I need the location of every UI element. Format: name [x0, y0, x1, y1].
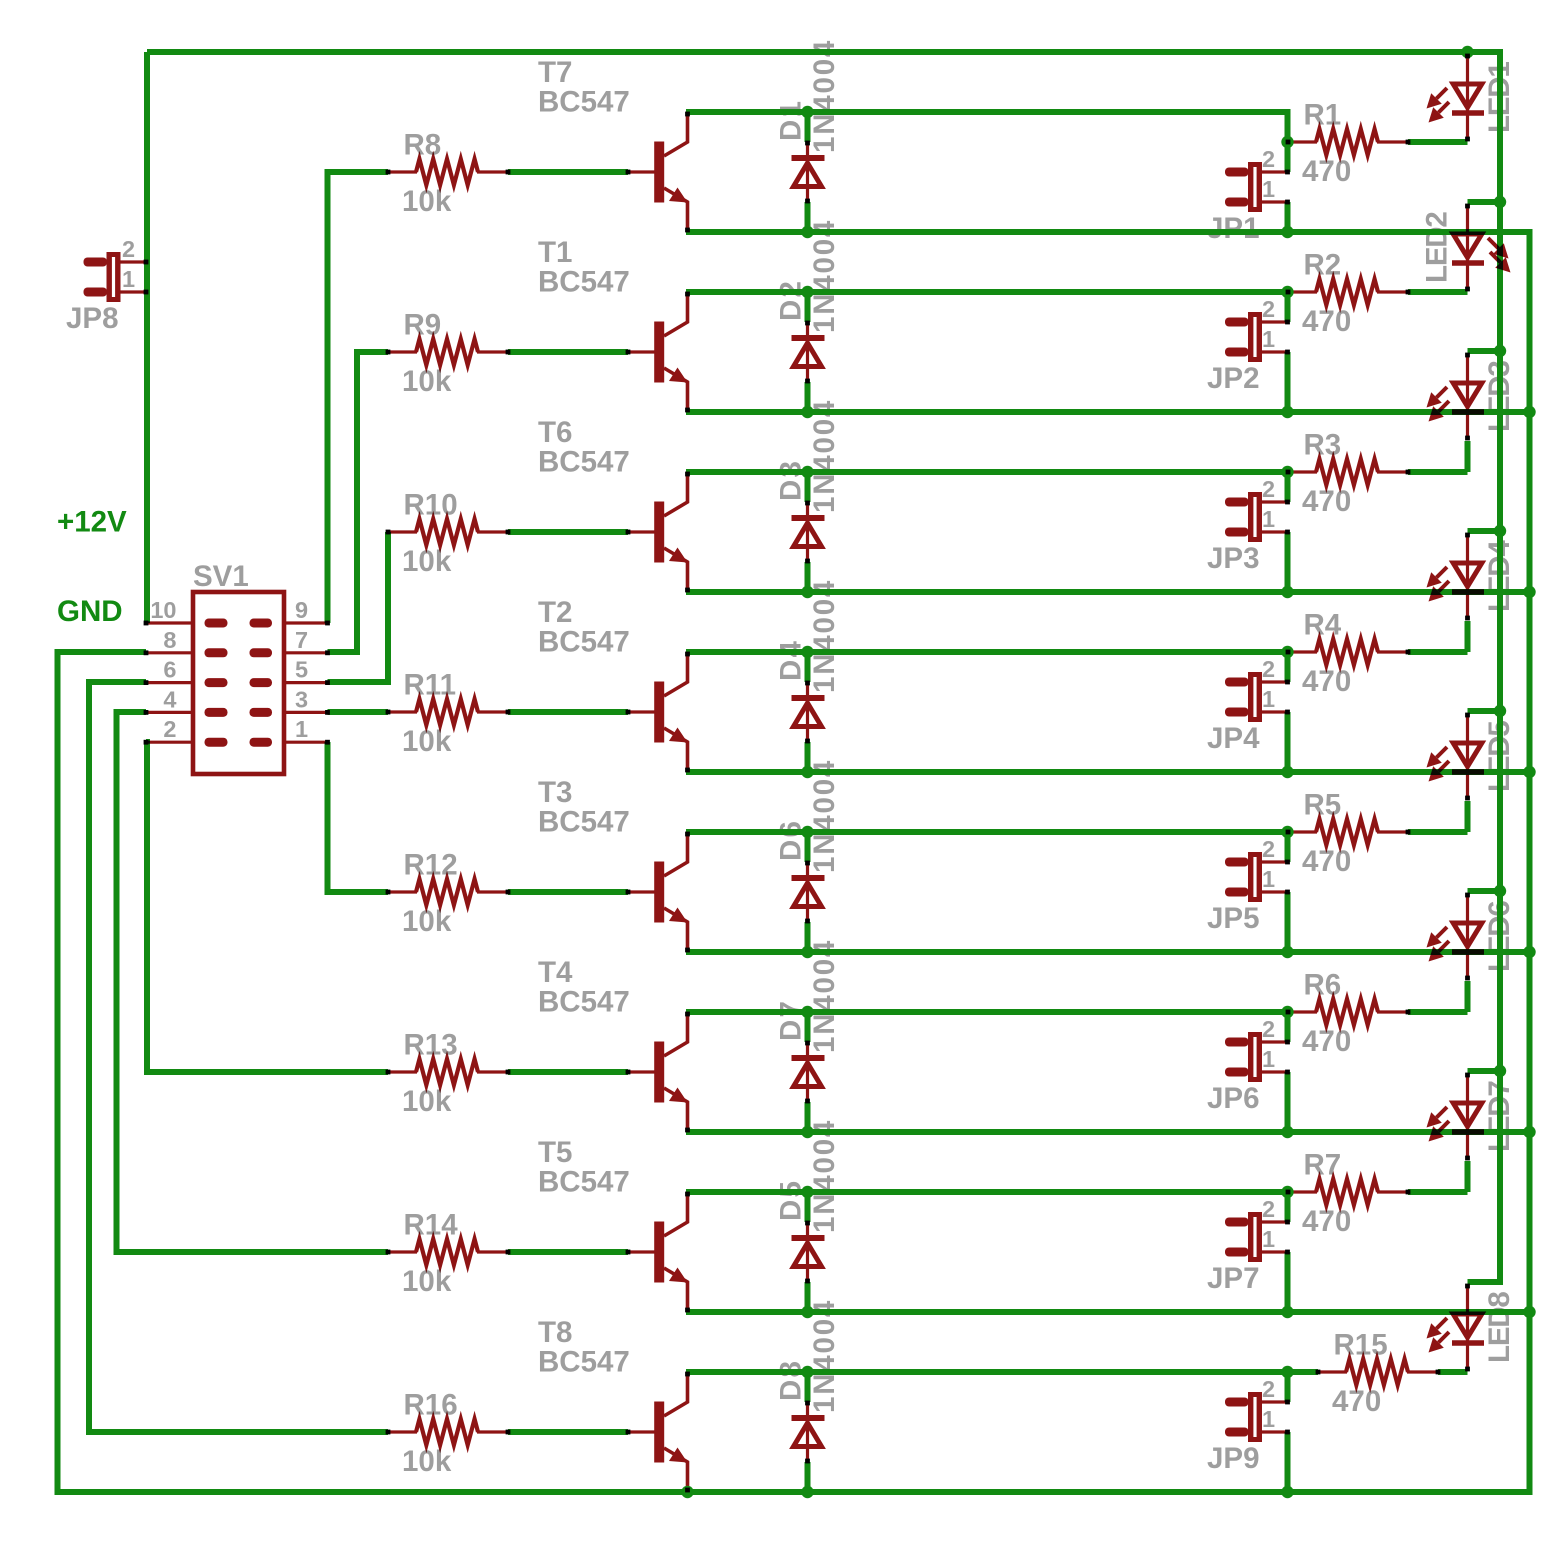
junction diode anode row 2 — [801, 406, 813, 418]
svg-text:T2: T2 — [538, 596, 572, 629]
wire R9 to T1 base — [508, 349, 628, 355]
wire LED3 cathode jog — [1465, 441, 1471, 472]
svg-text:8: 8 — [163, 627, 176, 653]
junction GND rail row 7 — [1523, 1306, 1535, 1318]
svg-text:R1: R1 — [1304, 99, 1342, 132]
pins of D2 — [805, 321, 810, 326]
svg-text:R15: R15 — [1334, 1329, 1388, 1362]
pins of LED1 — [1465, 54, 1470, 59]
junction 470-resistor row 6 — [1281, 1006, 1293, 1018]
jumper JP5 — [1225, 858, 1249, 867]
junction jumper pin1 GND row 2 — [1281, 406, 1293, 418]
svg-text:BC547: BC547 — [538, 986, 630, 1019]
svg-text:JP2: JP2 — [1207, 362, 1260, 395]
svg-text:JP9: JP9 — [1207, 1442, 1260, 1475]
jumper JP2 — [1225, 318, 1249, 327]
wire JP3 pin2 — [1285, 472, 1291, 502]
diode D7 — [806, 1042, 809, 1102]
wire SV1 pin3 to R11 — [328, 709, 389, 715]
wire T5 collector net — [686, 1189, 1288, 1195]
wire JP4 pin2 — [1285, 652, 1291, 682]
junction jumper pin1 GND row 6 — [1281, 1126, 1293, 1138]
wire D8 cathode — [805, 1372, 811, 1402]
junction diode cathode row 2 — [801, 286, 813, 298]
wire JP9 pin2 — [1285, 1372, 1291, 1402]
LED LED3 — [1466, 353, 1469, 439]
svg-text:BC547: BC547 — [538, 266, 630, 299]
pins of R9 — [386, 350, 391, 355]
svg-text:T1: T1 — [538, 236, 572, 269]
wire JP9 pin1 to GND — [1285, 1432, 1291, 1492]
pins of T1 — [626, 350, 631, 355]
svg-text:T6: T6 — [538, 416, 572, 449]
transistor T1 — [628, 350, 655, 353]
wire D5 cathode — [805, 1192, 811, 1222]
svg-text:1: 1 — [1262, 686, 1275, 712]
pins of T4 — [626, 1070, 631, 1075]
junction 470-resistor row 2 — [1281, 286, 1293, 298]
svg-text:R14: R14 — [404, 1209, 459, 1242]
pins of R10 — [386, 530, 391, 535]
resistor R9 10k — [388, 350, 417, 353]
resistor R6 470 — [1288, 1010, 1317, 1013]
wire R10 to T6 base — [508, 529, 628, 535]
junction +12V LED4 stub — [1494, 525, 1506, 537]
svg-text:1N4004: 1N4004 — [808, 579, 841, 693]
svg-text:JP1: JP1 — [1207, 212, 1260, 245]
LED LED6 — [1466, 893, 1469, 979]
diode D3 — [806, 502, 809, 562]
pins of T5 — [626, 1250, 631, 1255]
svg-text:3: 3 — [295, 686, 308, 712]
svg-text:BC547: BC547 — [538, 446, 630, 479]
pins of R14 — [386, 1250, 391, 1255]
LED LED1 — [1466, 54, 1469, 140]
pins of LED2 — [1465, 204, 1470, 209]
svg-text:JP8: JP8 — [66, 302, 119, 335]
svg-text:2: 2 — [1262, 836, 1275, 862]
svg-text:BC547: BC547 — [538, 1166, 630, 1199]
diode D4 — [806, 682, 809, 742]
wire SV1 pin5 to R10 — [328, 532, 389, 682]
transistor T6 — [628, 530, 655, 533]
junction GND rail row 3 — [1523, 586, 1535, 598]
wire R15 to LED8 — [1438, 1369, 1468, 1375]
svg-text:1: 1 — [1262, 1226, 1275, 1252]
junction +12V LED3 stub — [1494, 345, 1506, 357]
wire R1 to LED1 — [1408, 139, 1468, 145]
svg-text:5: 5 — [295, 657, 308, 683]
pins of R2 — [1286, 290, 1291, 295]
pins of T6 — [626, 530, 631, 535]
LED LED4 — [1466, 533, 1469, 619]
wire D3 anode — [805, 562, 811, 592]
svg-text:D5: D5 — [775, 1179, 808, 1221]
resistor R7 470 — [1288, 1190, 1317, 1193]
wire LED7 anode stub — [1468, 1068, 1501, 1074]
wire D6 anode — [805, 922, 811, 952]
svg-text:2: 2 — [122, 236, 135, 262]
svg-text:1: 1 — [1262, 1406, 1275, 1432]
wire LED7 cathode jog — [1465, 1161, 1471, 1192]
junction diode anode row 7 — [801, 1306, 813, 1318]
wire R5 to LED5 — [1408, 829, 1468, 835]
wire R4 to LED4 — [1408, 649, 1468, 655]
svg-text:JP3: JP3 — [1207, 542, 1260, 575]
svg-text:R3: R3 — [1304, 429, 1342, 462]
wire JP5 pin1 to GND — [1285, 892, 1291, 952]
LED LED2 — [1466, 204, 1469, 290]
pins of LED3 — [1465, 353, 1470, 358]
wire LED6 anode stub — [1468, 888, 1501, 894]
junction +12V LED7 stub — [1494, 1065, 1506, 1077]
wire R14 to T5 base — [508, 1249, 628, 1255]
pins of JP4 — [1285, 680, 1290, 685]
svg-text:1N4004: 1N4004 — [808, 939, 841, 1053]
wire +12V left vertical — [144, 52, 150, 623]
svg-text:R9: R9 — [404, 309, 442, 342]
svg-text:D4: D4 — [775, 639, 808, 681]
junction jumper pin1 GND row 8 — [1281, 1486, 1293, 1498]
wire JP4 pin1 to GND — [1285, 712, 1291, 772]
wire R2 to LED2 — [1408, 289, 1468, 295]
junction 470-resistor row 5 — [1281, 826, 1293, 838]
svg-text:BC547: BC547 — [538, 806, 630, 839]
svg-text:T3: T3 — [538, 776, 572, 809]
wire D7 cathode — [805, 1012, 811, 1042]
svg-text:R7: R7 — [1304, 1149, 1342, 1182]
junction diode cathode row 5 — [801, 826, 813, 838]
svg-text:6: 6 — [163, 657, 176, 683]
wire T2 collector net — [686, 649, 1288, 655]
svg-text:R4: R4 — [1304, 609, 1342, 642]
junction +12V LED6 stub — [1494, 885, 1506, 897]
transistor T7 — [628, 170, 655, 173]
wire JP2 pin1 to GND — [1285, 352, 1291, 412]
resistor R10 10k — [388, 530, 417, 533]
wire T1 collector net — [686, 289, 1288, 295]
resistor R12 10k — [388, 890, 417, 893]
svg-text:R12: R12 — [404, 849, 458, 882]
wire D2 cathode — [805, 292, 811, 322]
wire T5 emitter to GND — [686, 1309, 1530, 1315]
jumper JP3 — [1225, 498, 1249, 507]
wire D6 cathode — [805, 832, 811, 862]
wire T3 emitter to GND — [686, 949, 1530, 955]
svg-text:BC547: BC547 — [538, 1346, 630, 1379]
wire D8 anode — [805, 1462, 811, 1492]
svg-text:10: 10 — [150, 597, 176, 623]
pins of T8 — [626, 1430, 631, 1435]
pins of LED6 — [1465, 893, 1470, 898]
wire SV1 pin4 to R14 — [117, 712, 389, 1252]
resistor R2 470 — [1288, 290, 1317, 293]
svg-text:BC547: BC547 — [538, 86, 630, 119]
wire T4 emitter to GND — [686, 1129, 1530, 1135]
wire T7 collector net — [686, 112, 1288, 142]
junction GND rail row 4 — [1523, 766, 1535, 778]
jumper JP7 — [1225, 1218, 1249, 1227]
junction diode cathode row 1 — [801, 106, 813, 118]
jumper JP8 — [84, 258, 108, 267]
junction diode cathode row 3 — [801, 466, 813, 478]
wire JP7 pin1 to GND — [1285, 1252, 1291, 1312]
wire R15 left link — [1288, 1369, 1319, 1375]
wire D7 anode — [805, 1102, 811, 1132]
wire GND right rail and bottom rail — [58, 232, 1530, 1492]
LED LED8 — [1466, 1284, 1469, 1370]
diode D5 — [806, 1222, 809, 1282]
pins of D3 — [805, 501, 810, 506]
junction +12V LED5 stub — [1494, 705, 1506, 717]
resistor R3 470 — [1288, 470, 1317, 473]
junction diode cathode row 6 — [801, 1006, 813, 1018]
pins of R11 — [386, 710, 391, 715]
svg-text:D7: D7 — [775, 999, 808, 1041]
junction diode anode row 3 — [801, 586, 813, 598]
wire T3 collector net — [686, 829, 1288, 835]
wire T2 emitter to GND — [686, 769, 1530, 775]
diode D8 — [806, 1402, 809, 1462]
junction diode anode row 6 — [801, 1126, 813, 1138]
svg-text:D2: D2 — [775, 279, 808, 321]
pins of R3 — [1286, 470, 1291, 475]
wire JP1 pin2 — [1285, 142, 1291, 172]
svg-text:R10: R10 — [404, 489, 458, 522]
wire LED3 anode stub — [1468, 348, 1501, 354]
svg-text:JP7: JP7 — [1207, 1262, 1260, 1295]
wire +12V top rail and LED supply rail — [147, 52, 1500, 1282]
pins of R7 — [1286, 1190, 1291, 1195]
svg-text:R13: R13 — [404, 1029, 458, 1062]
wire T6 emitter to GND — [686, 589, 1530, 595]
junction +12V LED1 — [1461, 46, 1473, 58]
wire R11 to T2 base — [508, 709, 628, 715]
wire D4 anode — [805, 742, 811, 772]
wire T6 collector net — [686, 469, 1288, 475]
junction diode cathode row 8 — [801, 1366, 813, 1378]
pins of R13 — [386, 1070, 391, 1075]
svg-text:D6: D6 — [775, 819, 808, 861]
junction 470-resistor row 4 — [1281, 646, 1293, 658]
pins of T3 — [626, 890, 631, 895]
svg-text:7: 7 — [295, 627, 308, 653]
svg-text:GND: GND — [57, 595, 123, 628]
pins of JP7 — [1285, 1220, 1290, 1225]
diode D2 — [806, 322, 809, 382]
svg-text:2: 2 — [1262, 1376, 1275, 1402]
wire D1 cathode — [805, 112, 811, 142]
pins of JP8 — [144, 260, 149, 265]
pins of D6 — [805, 861, 810, 866]
pins of JP1 — [1285, 170, 1290, 175]
svg-text:1N4004: 1N4004 — [808, 1119, 841, 1233]
pins of SV1 — [144, 621, 149, 626]
svg-text:1: 1 — [1262, 176, 1275, 202]
junction diode anode row 1 — [801, 226, 813, 238]
wire SV1 pin7 to R9 — [328, 352, 389, 652]
diode D6 — [806, 862, 809, 922]
junction diode anode row 5 — [801, 946, 813, 958]
wire JP6 pin2 — [1285, 1012, 1291, 1042]
junction diode anode row 8 — [801, 1486, 813, 1498]
wire T1 emitter to GND — [686, 409, 1530, 415]
wire JP6 pin1 to GND — [1285, 1072, 1291, 1132]
wire JP1 pin1 to GND — [1285, 202, 1291, 232]
pins of D8 — [805, 1401, 810, 1406]
wire D1 anode — [805, 202, 811, 232]
svg-text:2: 2 — [1262, 146, 1275, 172]
svg-text:1N4004: 1N4004 — [808, 399, 841, 513]
pins of JP3 — [1285, 500, 1290, 505]
svg-text:T8: T8 — [538, 1316, 572, 1349]
pins of LED8 — [1465, 1284, 1470, 1289]
resistor R1 470 — [1288, 140, 1317, 143]
wire SV1 pin1 to R12 — [328, 742, 389, 892]
resistor R8 10k — [388, 170, 417, 173]
svg-text:1N4004: 1N4004 — [808, 39, 841, 153]
svg-text:R5: R5 — [1304, 789, 1342, 822]
svg-text:T5: T5 — [538, 1136, 572, 1169]
svg-text:2: 2 — [1262, 296, 1275, 322]
svg-text:2: 2 — [1262, 476, 1275, 502]
junction +12V LED2 stub — [1494, 196, 1506, 208]
pins of D5 — [805, 1221, 810, 1226]
wire T7 emitter to GND — [686, 229, 1530, 235]
pins of T7 — [626, 170, 631, 175]
wire LED2 anode stub — [1468, 199, 1501, 205]
svg-text:1: 1 — [1262, 326, 1275, 352]
wire R13 to T4 base — [508, 1069, 628, 1075]
svg-text:R6: R6 — [1304, 969, 1342, 1002]
svg-text:D3: D3 — [775, 459, 808, 501]
wire R7 to LED7 — [1408, 1189, 1468, 1195]
wire JP3 pin1 to GND — [1285, 532, 1291, 592]
resistor R13 10k — [388, 1070, 417, 1073]
svg-text:1: 1 — [1262, 866, 1275, 892]
wire LED5 cathode jog — [1465, 801, 1471, 832]
pins of R8 — [386, 170, 391, 175]
wire LED4 cathode jog — [1465, 621, 1471, 652]
svg-text:2: 2 — [1262, 1016, 1275, 1042]
pins of LED5 — [1465, 713, 1470, 718]
wire D5 anode — [805, 1282, 811, 1312]
svg-text:LED8: LED8 — [1483, 1292, 1516, 1363]
svg-text:LED2: LED2 — [1421, 212, 1454, 283]
svg-text:1: 1 — [122, 266, 135, 292]
wire R3 to LED3 — [1408, 469, 1468, 475]
svg-text:1: 1 — [1262, 506, 1275, 532]
svg-text:JP5: JP5 — [1207, 902, 1260, 935]
junction diode cathode row 7 — [801, 1186, 813, 1198]
wire SV1 pin9 to R8 — [328, 172, 389, 623]
junction 470-resistor row 1 — [1281, 136, 1293, 148]
wire LED5 anode stub — [1468, 708, 1501, 714]
resistor R11 10k — [388, 710, 417, 713]
transistor T3 — [628, 890, 655, 893]
LED LED5 — [1466, 713, 1469, 799]
transistor T5 — [628, 1250, 655, 1253]
junction jumper pin1 GND row 7 — [1281, 1306, 1293, 1318]
wire T8 collector net — [686, 1369, 1288, 1375]
wire R8 to T7 base — [508, 169, 628, 175]
junction 470-resistor row 8 — [1281, 1366, 1293, 1378]
pins of LED4 — [1465, 533, 1470, 538]
transistor T4 — [628, 1070, 655, 1073]
pins of JP5 — [1285, 860, 1290, 865]
resistor R15 470 — [1318, 1370, 1347, 1373]
svg-text:1: 1 — [295, 716, 308, 742]
pins of D1 — [805, 141, 810, 146]
junction T8 emitter GND — [681, 1486, 693, 1498]
pins of R4 — [1286, 650, 1291, 655]
junction jumper pin1 GND row 5 — [1281, 946, 1293, 958]
wire SV1 pin2 to R13 — [146, 742, 388, 1072]
svg-text:4: 4 — [163, 686, 176, 712]
svg-text:1N4004: 1N4004 — [808, 759, 841, 873]
resistor R5 470 — [1288, 830, 1317, 833]
svg-text:R8: R8 — [404, 129, 442, 162]
svg-text:1N4004: 1N4004 — [808, 1299, 841, 1413]
svg-text:1N4004: 1N4004 — [808, 219, 841, 333]
wire R6 to LED6 — [1408, 1009, 1468, 1015]
svg-text:T4: T4 — [538, 956, 573, 989]
svg-text:+12V: +12V — [57, 506, 127, 539]
diode D1 — [806, 142, 809, 202]
svg-text:D1: D1 — [775, 99, 808, 141]
wire D4 cathode — [805, 652, 811, 682]
pins of JP6 — [1285, 1040, 1290, 1045]
jumper JP9 — [1225, 1398, 1249, 1407]
svg-text:R2: R2 — [1304, 249, 1342, 282]
junction jumper pin1 GND row 4 — [1281, 766, 1293, 778]
svg-text:9: 9 — [295, 597, 308, 623]
pins of JP9 — [1285, 1400, 1290, 1405]
jumper JP4 — [1225, 678, 1249, 687]
wire T4 collector net — [686, 1009, 1288, 1015]
svg-text:JP4: JP4 — [1207, 722, 1260, 755]
svg-text:2: 2 — [1262, 1196, 1275, 1222]
wire SV1 pin6 to R16 — [89, 682, 388, 1432]
resistor R14 10k — [388, 1250, 417, 1253]
pins of JP2 — [1285, 320, 1290, 325]
wire R12 to T3 base — [508, 889, 628, 895]
junction diode cathode row 4 — [801, 646, 813, 658]
pins of D7 — [805, 1041, 810, 1046]
pins of R1 — [1286, 140, 1291, 145]
svg-text:BC547: BC547 — [538, 626, 630, 659]
svg-text:SV1: SV1 — [193, 560, 249, 593]
pins of R6 — [1286, 1010, 1291, 1015]
pins of R5 — [1286, 830, 1291, 835]
resistor R4 470 — [1288, 650, 1317, 653]
connector SV1 — [193, 592, 284, 774]
junction 470-resistor row 3 — [1281, 466, 1293, 478]
transistor T2 — [628, 710, 655, 713]
pins of R12 — [386, 890, 391, 895]
LED LED7 — [1466, 1073, 1469, 1159]
wire JP5 pin2 — [1285, 832, 1291, 862]
svg-text:1: 1 — [1262, 1046, 1275, 1072]
svg-text:JP6: JP6 — [1207, 1082, 1260, 1115]
wire LED6 cathode jog — [1465, 981, 1471, 1012]
wire D2 anode — [805, 382, 811, 412]
wire LED4 anode stub — [1468, 528, 1501, 534]
svg-text:D8: D8 — [775, 1359, 808, 1401]
junction 470-resistor row 7 — [1281, 1186, 1293, 1198]
junction jumper pin1 GND row 1 — [1281, 226, 1293, 238]
junction GND rail row 2 — [1523, 406, 1535, 418]
